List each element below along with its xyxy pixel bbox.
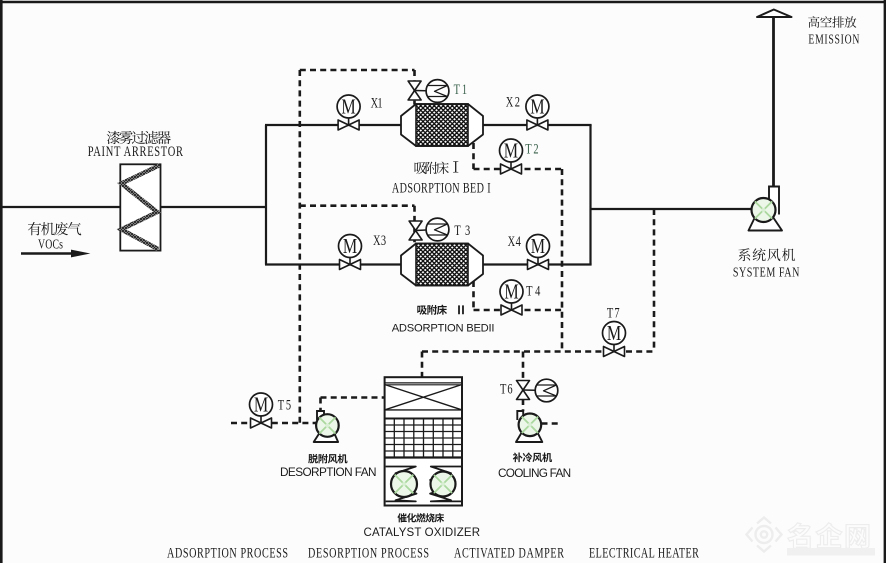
label system fan	[733, 248, 800, 280]
label adsorption bed II	[392, 305, 495, 335]
damper valve T1	[408, 80, 467, 103]
wire dashed T1 riser to bed I	[413, 70, 416, 105]
damper valve T3	[409, 218, 470, 241]
wire exhaust stack	[772, 17, 775, 187]
svg-text:CATALYST OXIDIZER: CATALYST OXIDIZER	[364, 527, 481, 539]
wire dashed T7 header	[422, 350, 654, 353]
system fan	[749, 187, 783, 231]
wire dashed catalyst oxidizer feed riser	[421, 352, 424, 378]
catalyst oxidizer fan left	[391, 471, 417, 497]
svg-text:M: M	[530, 95, 544, 119]
wire dashed T4 line	[474, 309, 563, 312]
svg-text:X4: X4	[508, 233, 522, 249]
svg-text:T6: T6	[500, 381, 513, 397]
wire lower branch right	[483, 263, 592, 265]
valve T2	[500, 139, 539, 174]
wire dashed loop bed II top (D6)	[300, 204, 415, 207]
valve T4	[500, 280, 541, 315]
wire dashed cooling fan intake stub	[542, 422, 560, 425]
valve X3	[339, 232, 387, 269]
svg-text:ADSORPTION BEDII: ADSORPTION BEDII	[392, 323, 495, 335]
label adsorption bed I	[392, 161, 491, 196]
svg-text:M: M	[341, 95, 355, 119]
svg-text:X3: X3	[373, 232, 386, 248]
border top	[0, 1, 886, 4]
svg-text:ADSORPTION BED I: ADSORPTION BED I	[392, 180, 491, 196]
svg-text:M: M	[254, 393, 268, 417]
svg-text:ACTIVATED DAMPER: ACTIVATED DAMPER	[454, 545, 565, 561]
border right	[884, 0, 886, 563]
svg-text:X2: X2	[506, 94, 520, 110]
label catalyst oxidizer	[364, 513, 481, 539]
wire dashed bed I outlet riser	[472, 143, 475, 169]
svg-text:M: M	[504, 139, 518, 163]
node right manifold	[589, 125, 591, 265]
wire dashed T5 line / desorption fan suction	[231, 422, 316, 425]
valve X2	[506, 94, 549, 130]
svg-text:SYSTEM FAN: SYSTEM FAN	[733, 264, 800, 280]
wire lower branch left	[265, 263, 401, 265]
svg-text:DESORPTION FAN: DESORPTION FAN	[280, 465, 377, 479]
svg-text:T7: T7	[607, 305, 620, 321]
svg-text:PAINT ARRESTOR: PAINT ARRESTOR	[88, 142, 184, 159]
label emission	[808, 16, 860, 47]
svg-text:VOCs: VOCs	[38, 236, 63, 252]
svg-text:ADSORPTION PROCESS: ADSORPTION PROCESS	[167, 545, 288, 561]
desorption fan	[314, 411, 339, 442]
wire dashed T2 line	[474, 168, 563, 171]
label VOCs inlet	[28, 222, 81, 252]
wire dashed right drop (D5)	[561, 169, 564, 352]
wire dashed left riser (D1)	[298, 70, 301, 423]
wire dashed bed II outlet riser	[472, 281, 475, 310]
wire dashed T3 riser to bed II	[413, 206, 416, 244]
valve X4	[508, 233, 550, 269]
catalyst oxidizer fan right	[431, 472, 456, 497]
svg-text:EMISSION: EMISSION	[808, 32, 859, 47]
svg-text:M: M	[343, 235, 357, 259]
wire dashed loop bed I top (D2)	[300, 69, 415, 72]
wire dashed desorption fan outlet	[321, 398, 385, 412]
cooling fan	[516, 411, 542, 442]
adsorption bed II vessel	[401, 244, 483, 286]
watermark logo	[747, 518, 876, 556]
label cooling fan	[498, 452, 571, 480]
svg-text:COOLING FAN: COOLING FAN	[498, 466, 571, 480]
emission outlet cone	[757, 10, 792, 18]
border left	[0, 0, 3, 563]
svg-text:X1: X1	[371, 95, 383, 111]
electrical heater right coil	[430, 467, 461, 502]
svg-text:M: M	[504, 280, 518, 304]
node left manifold	[265, 125, 267, 265]
svg-text:M: M	[531, 235, 545, 259]
wire dashed T6 drop	[522, 352, 525, 382]
paint arrestor filter	[120, 164, 160, 250]
wire upper branch right	[483, 124, 592, 126]
inlet flow arrow	[21, 250, 90, 258]
valve T7	[603, 305, 626, 357]
wire outlet pipe to system fan	[591, 208, 752, 210]
svg-text:ELECTRICAL HEATER: ELECTRICAL HEATER	[589, 545, 700, 561]
valve X1	[337, 95, 383, 130]
adsorption bed I vessel	[401, 104, 483, 146]
wire upper branch left	[265, 124, 401, 126]
svg-text:DESORPTION PROCESS: DESORPTION PROCESS	[308, 545, 429, 561]
wire dashed riser from outlet pipe (x=654)	[653, 209, 656, 352]
valve T5	[250, 393, 292, 428]
svg-text:M: M	[607, 322, 621, 346]
label desorption fan	[280, 454, 377, 479]
damper valve T6	[500, 379, 558, 402]
catalyst oxidizer vessel	[385, 377, 462, 505]
wire main inlet pipe	[2, 206, 266, 208]
label paint arrestor	[88, 131, 184, 160]
electrical heater left coil	[386, 467, 417, 502]
